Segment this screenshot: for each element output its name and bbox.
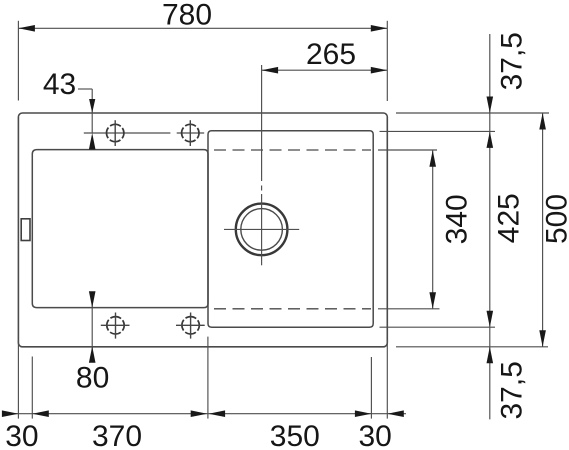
right extension dashed-bottom	[378, 308, 440, 310]
dim 780 line	[18, 27, 387, 29]
drain inner circle	[241, 209, 283, 251]
bowl inner top dashed line	[214, 149, 371, 151]
right extension outer-top	[396, 112, 549, 114]
right extension bowl-top	[380, 130, 496, 132]
svg-text:43: 43	[43, 68, 76, 101]
svg-text:340: 340	[441, 194, 474, 244]
svg-text:265: 265	[306, 38, 356, 71]
drain outer circle	[236, 204, 288, 256]
overflow slot	[21, 219, 30, 241]
svg-text:30: 30	[5, 420, 38, 450]
dim 780 extension left	[17, 21, 19, 101]
svg-text:37,5: 37,5	[496, 32, 529, 90]
svg-text:370: 370	[92, 420, 142, 450]
dim 500 line	[542, 113, 544, 347]
dim 265 line	[262, 69, 388, 71]
bowl outline	[208, 131, 373, 327]
right extension dashed-top	[378, 149, 437, 151]
bottom extension bowl-right	[370, 357, 372, 419]
tap hole 2	[182, 124, 199, 141]
svg-text:425: 425	[493, 193, 526, 243]
dim 80 line	[91, 293, 93, 362]
svg-text:780: 780	[162, 0, 212, 31]
svg-text:30: 30	[359, 420, 392, 450]
drain vertical centerline	[261, 65, 263, 181]
bottom extension outer-left	[17, 340, 19, 419]
sink outer outline	[18, 113, 387, 347]
bowl inner bottom dashed line	[214, 308, 371, 310]
tap hole 3	[107, 317, 124, 334]
right extension outer-bottom	[396, 346, 548, 348]
tap hole 1	[107, 124, 124, 141]
svg-text:500: 500	[541, 194, 569, 244]
bottom dimension line	[2, 413, 406, 415]
dim 425 / 37,5 vertical line	[489, 34, 491, 419]
bottom extension bowl-left	[207, 337, 209, 419]
dim 780/265 extension right	[386, 21, 388, 101]
drain horizontal centerline	[224, 228, 299, 230]
bottom extension drainer-left	[31, 357, 33, 419]
dim 43 leader	[78, 88, 92, 90]
svg-text:350: 350	[270, 420, 320, 450]
tap hole 4	[182, 317, 199, 334]
svg-text:37,5: 37,5	[495, 361, 528, 419]
drainer inner outline	[32, 150, 208, 308]
tap hole centerline top row	[84, 132, 171, 134]
svg-text:80: 80	[76, 362, 109, 395]
right extension bowl-bottom	[380, 326, 496, 328]
dim 340 line	[432, 150, 434, 309]
bottom extension outer-right	[386, 340, 388, 419]
